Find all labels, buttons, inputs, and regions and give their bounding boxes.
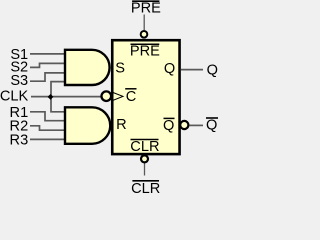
svg-text:S3: S3 [10, 73, 28, 89]
flip-flop U3 body [112, 40, 179, 154]
wire CLK [31, 96, 102, 98]
CLR input bubble [141, 155, 148, 162]
svg-text:Q: Q [163, 118, 174, 134]
clock edge triangle [113, 93, 123, 101]
wire Q output [181, 69, 203, 71]
svg-text:PRE: PRE [130, 43, 160, 59]
svg-text:Q: Q [207, 62, 218, 78]
svg-text:CLK: CLK [0, 89, 28, 105]
wire PRE stub [143, 15, 145, 31]
wire CLK branch down to U2 [51, 97, 66, 112]
AND gate U2 (R inputs) [65, 107, 110, 144]
svg-text:Q: Q [164, 61, 175, 77]
AND gate U1 (S inputs) [65, 50, 110, 85]
svg-text:R3: R3 [10, 133, 29, 149]
svg-text:CLR: CLR [130, 139, 159, 155]
Q-bar output bubble [180, 121, 188, 129]
wire Q-bar output [190, 124, 204, 126]
svg-text:C: C [126, 89, 137, 105]
svg-text:CLR: CLR [131, 181, 160, 194]
PRE input bubble [141, 31, 148, 38]
wire S3 [30, 73, 66, 81]
svg-text:PRE: PRE [131, 0, 161, 16]
svg-text:S: S [115, 61, 125, 77]
svg-text:R: R [116, 117, 127, 133]
junction dot on CLK node [48, 94, 54, 100]
wire CLK branch up to U1 [51, 82, 66, 97]
wire S2 [30, 63, 66, 67]
clock input bubble [102, 91, 112, 101]
wire S1 [30, 53, 66, 55]
wire CLR stub [144, 163, 146, 176]
svg-text:Q: Q [206, 118, 217, 134]
wire R1 [30, 112, 66, 121]
wire R2 [30, 126, 66, 130]
wire R3 [30, 138, 66, 140]
